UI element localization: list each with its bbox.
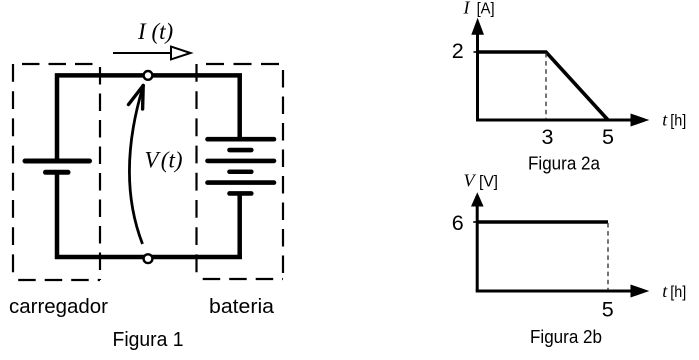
- svg-text:I: I: [137, 19, 147, 44]
- svg-text:[h]: [h]: [670, 284, 686, 301]
- svg-text:5: 5: [602, 125, 614, 149]
- svg-text:[V]: [V]: [479, 173, 498, 190]
- svg-text:6: 6: [452, 211, 464, 235]
- svg-text:Figura 2a: Figura 2a: [528, 152, 601, 173]
- svg-text:carregador: carregador: [9, 296, 108, 318]
- svg-text:I: I: [463, 0, 471, 18]
- svg-text:Figura 2b: Figura 2b: [530, 326, 602, 347]
- svg-text:[A]: [A]: [477, 1, 495, 18]
- svg-text:bateria: bateria: [209, 296, 275, 318]
- svg-text:(t): (t): [152, 19, 174, 44]
- svg-text:(t): (t): [161, 148, 183, 173]
- svg-text:5: 5: [602, 298, 614, 322]
- svg-text:Figura 1: Figura 1: [113, 329, 184, 351]
- svg-text:[h]: [h]: [670, 113, 686, 130]
- svg-text:2: 2: [452, 39, 464, 63]
- svg-text:3: 3: [542, 125, 554, 149]
